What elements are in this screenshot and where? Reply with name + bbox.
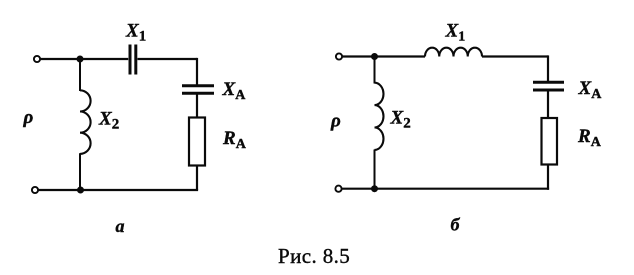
wire right vertical upper (circuit a) <box>196 58 198 85</box>
svg-text:ρ: ρ <box>23 107 34 128</box>
node junction top (circuit a) <box>77 56 84 63</box>
svg-text:ρ: ρ <box>330 111 341 132</box>
capacitor X1 (circuit a) plates <box>129 45 132 75</box>
capacitor XA (circuit b) plates <box>533 81 564 84</box>
wire bottom (circuit b) <box>342 188 549 190</box>
capacitor XA (circuit a) plates <box>182 84 214 87</box>
svg-text:б: б <box>451 215 461 235</box>
inductor X2 (circuit a) <box>80 90 91 154</box>
wire top left segment (circuit b) <box>343 55 426 57</box>
wire top right (circuit a) <box>138 58 198 60</box>
node junction bottom (circuit a) <box>77 187 84 194</box>
terminal bottom-left (circuit a) <box>32 187 38 193</box>
wire left branch lower (circuit b) <box>374 150 376 189</box>
terminal top-left (circuit a) <box>34 56 40 62</box>
wire left branch upper (circuit b) <box>374 57 376 84</box>
resistor RA (circuit a) <box>189 118 205 166</box>
resistor RA (circuit b) <box>542 118 558 165</box>
wire resistor-to-bottom (circuit a) <box>196 166 198 191</box>
wire top (circuit a) <box>41 58 129 60</box>
terminal top-left (circuit b) <box>336 53 342 59</box>
wire top right segment (circuit b) <box>482 55 548 57</box>
wire cap-to-resistor (circuit b) <box>547 92 549 119</box>
svg-text:а: а <box>116 216 125 236</box>
node junction bottom (circuit b) <box>371 185 378 192</box>
wire resistor-to-bottom (circuit b) <box>547 165 549 190</box>
wire right vertical upper (circuit b) <box>547 55 549 81</box>
inductor X1 (circuit b) <box>425 48 482 57</box>
wire cap-to-resistor (circuit a) <box>196 95 198 119</box>
inductor X2 (circuit b) <box>375 83 384 150</box>
terminal bottom-left (circuit b) <box>335 186 341 192</box>
wire left branch lower (circuit a) <box>79 153 81 190</box>
wire left branch upper (circuit a) <box>79 59 81 91</box>
wire bottom (circuit a) <box>39 189 199 191</box>
svg-text:Рис. 8.5: Рис. 8.5 <box>278 244 350 268</box>
node junction top (circuit b) <box>371 53 378 60</box>
